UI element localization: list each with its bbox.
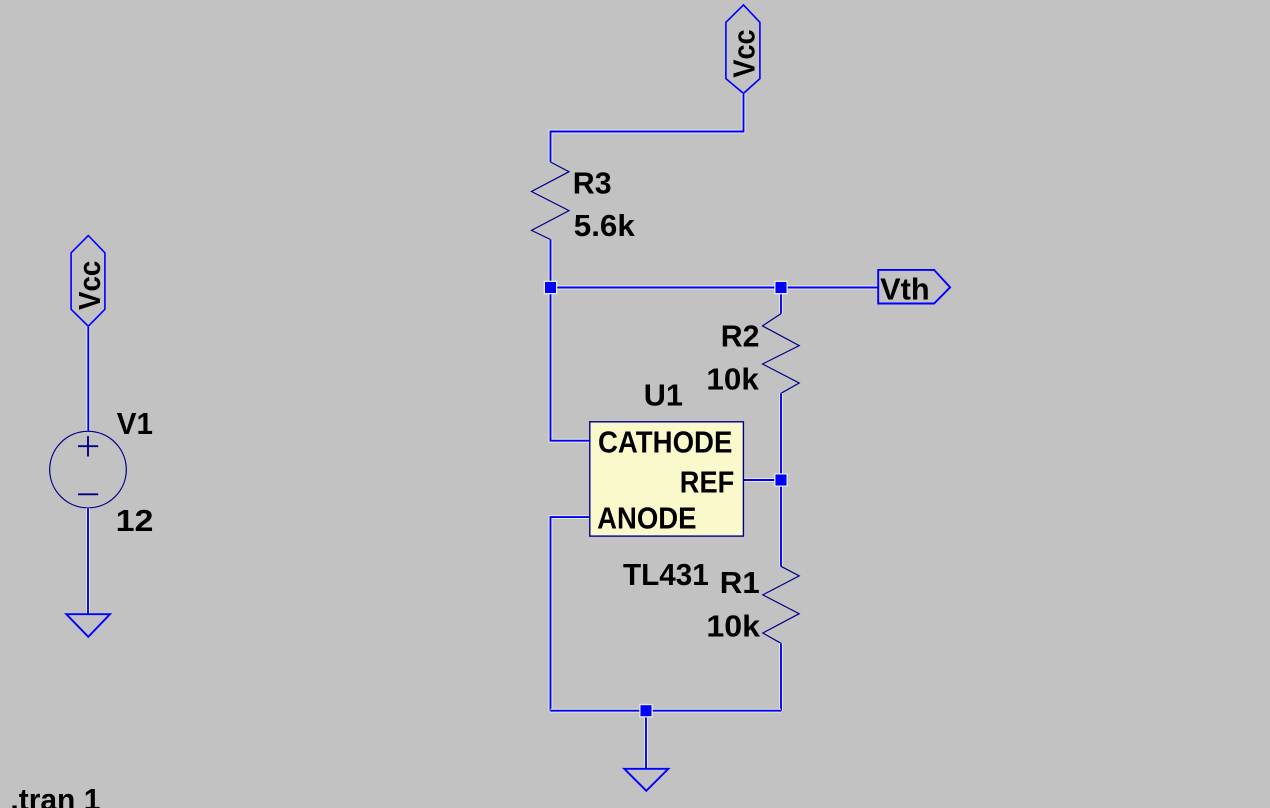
flag Vcc top <box>726 5 762 94</box>
svg-text:U1: U1 <box>644 377 683 412</box>
resistor R3 body <box>532 162 570 240</box>
wire R3 bottom to node <box>549 240 553 288</box>
wire REF stub <box>743 478 781 482</box>
svg-text:V1: V1 <box>117 406 153 441</box>
wire node to Vth flag <box>551 286 879 290</box>
svg-text:Vth: Vth <box>880 271 930 306</box>
wire node B to R2 <box>779 288 783 314</box>
junction node B <box>776 282 787 293</box>
svg-text:5.6k: 5.6k <box>574 208 636 243</box>
svg-text:TL431: TL431 <box>623 557 709 592</box>
resistor R1 body <box>763 566 799 643</box>
resistor R2 body <box>763 314 800 394</box>
wire R2 bottom to REF node <box>779 393 783 480</box>
flag Vth <box>878 270 950 306</box>
svg-text:R3: R3 <box>573 166 612 201</box>
wire anode stub <box>551 517 590 711</box>
wire from top Vcc flag <box>551 93 744 162</box>
wire node down to cathode <box>551 288 590 441</box>
wire REF node to R1 <box>779 480 783 566</box>
svg-text:R1: R1 <box>720 565 760 600</box>
wire to ground <box>644 711 648 769</box>
junction node REF <box>776 475 787 486</box>
junction node A <box>545 282 556 293</box>
flag Vcc left <box>71 236 107 327</box>
svg-text:10k: 10k <box>706 609 760 644</box>
svg-text:Vcc: Vcc <box>727 29 762 77</box>
junction node gnd <box>641 705 652 716</box>
wire Vcc flag to V1 <box>86 326 90 431</box>
svg-text:ANODE: ANODE <box>597 501 696 536</box>
svg-text:.tran 1: .tran 1 <box>10 782 100 808</box>
minus mark <box>78 493 98 495</box>
svg-text:10k: 10k <box>706 362 759 397</box>
svg-text:CATHODE: CATHODE <box>598 424 732 459</box>
voltage source V1 circle <box>50 431 127 508</box>
svg-text:Vcc: Vcc <box>72 261 107 310</box>
plus mark <box>78 436 98 456</box>
svg-text:R2: R2 <box>721 319 760 354</box>
ground symbol V1 <box>66 614 110 637</box>
wire bottom rail <box>551 709 782 713</box>
ground symbol bottom <box>624 769 668 791</box>
wire V1 to ground <box>86 508 90 614</box>
svg-text:12: 12 <box>116 503 154 538</box>
svg-text:REF: REF <box>680 464 734 499</box>
wire R1 bottom <box>779 643 783 710</box>
op-amp U1 TL431 box <box>590 422 744 536</box>
